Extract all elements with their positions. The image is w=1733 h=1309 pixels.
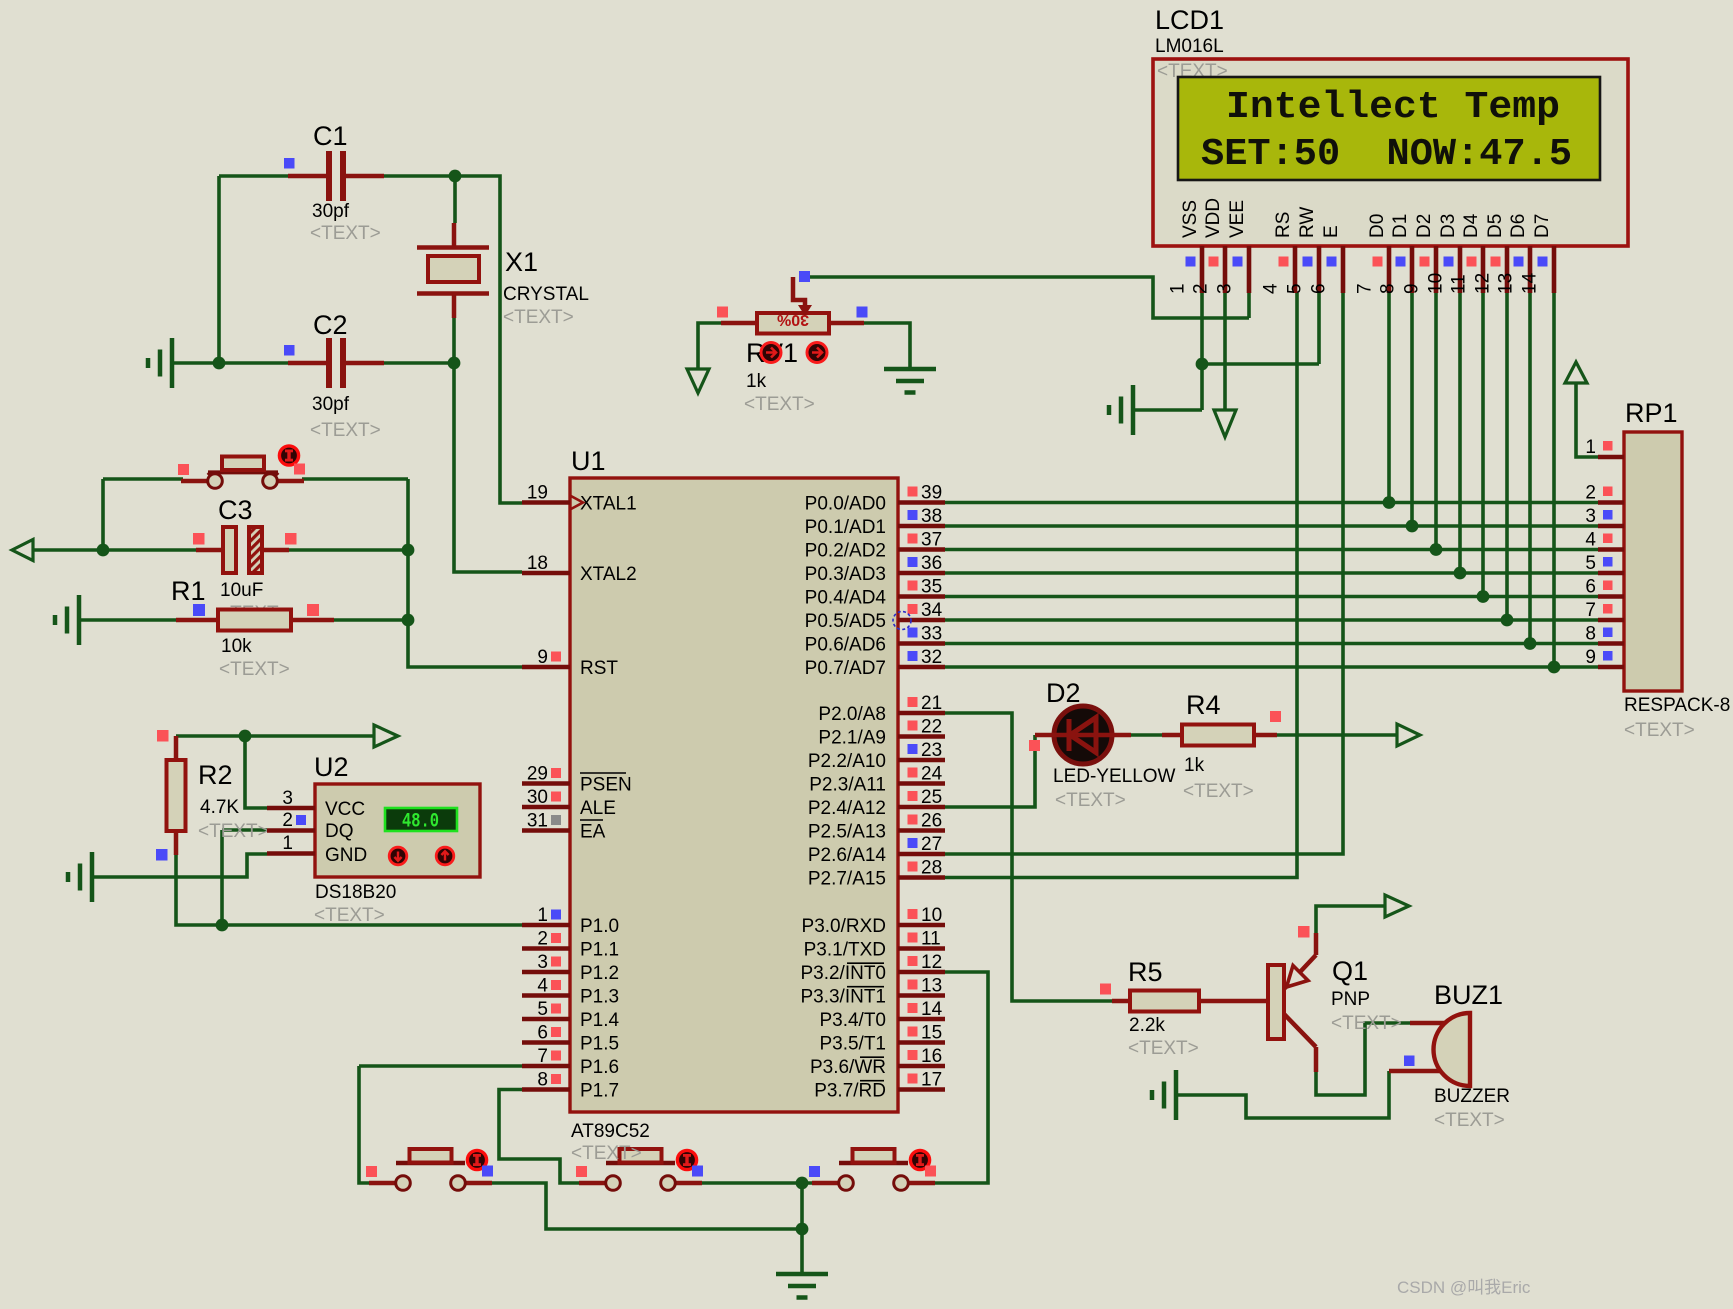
ground at buzzer [1152, 1070, 1176, 1120]
U1 pin 32 P0.7/AD7 [805, 647, 945, 679]
svg-text:3: 3 [282, 788, 293, 809]
svg-text:R5: R5 [1128, 957, 1163, 987]
svg-text:D1: D1 [1390, 214, 1411, 238]
wire reset button right to RST [302, 479, 522, 667]
svg-text:5: 5 [537, 999, 548, 1020]
U1 pin 21 P2.0/A8 [818, 693, 945, 725]
wire LCD D0 vertical [1387, 293, 1391, 503]
svg-text:D5: D5 [1485, 214, 1506, 238]
svg-text:BUZZER: BUZZER [1434, 1086, 1510, 1107]
svg-text:P1.3: P1.3 [580, 987, 619, 1008]
wire D2 cathode to R4 [1129, 733, 1162, 737]
U1 pin 1 P1.0 [522, 905, 619, 937]
svg-text:31: 31 [527, 811, 548, 832]
svg-text:P1.5: P1.5 [580, 1034, 619, 1055]
svg-text:P0.2/AD2: P0.2/AD2 [805, 541, 886, 562]
wire U1 P0.6 to RP1 pin8 [945, 642, 1598, 646]
LCD1 pin 4 RS [1261, 212, 1296, 294]
U1 pin 3 P1.2 [522, 952, 619, 984]
U1 pin 16 P3.6/WR [810, 1046, 945, 1078]
svg-text:14: 14 [1520, 272, 1541, 294]
svg-text:1: 1 [282, 833, 293, 854]
svg-text:8: 8 [1378, 283, 1399, 294]
svg-text:2: 2 [1191, 283, 1212, 294]
svg-text:P2.4/A12: P2.4/A12 [808, 798, 886, 819]
RP1 pin 8 [1585, 624, 1624, 645]
resistor R4 1k [1162, 690, 1281, 802]
wire U1 P2.6 to LCD E [945, 293, 1343, 854]
svg-text:4.7K: 4.7K [200, 797, 239, 818]
svg-text:P2.3/A11: P2.3/A11 [809, 775, 886, 796]
push button key3 [809, 1149, 936, 1190]
svg-text:C3: C3 [218, 495, 253, 525]
ground below keys [776, 1274, 828, 1298]
svg-text:3: 3 [1585, 506, 1596, 527]
svg-text:29: 29 [527, 764, 548, 785]
svg-text:P0.0/AD0: P0.0/AD0 [805, 494, 886, 515]
node junction 3 [448, 357, 461, 370]
svg-text:P3.3/INT1: P3.3/INT1 [800, 987, 886, 1008]
wire key2 right to key3 left [692, 1181, 822, 1185]
U2 temp up button [436, 847, 454, 865]
svg-text:Q1: Q1 [1332, 956, 1368, 986]
RP1 pin 1 [1585, 437, 1624, 458]
svg-text:VDD: VDD [1203, 198, 1224, 238]
LCD1 pin 5 RW [1285, 207, 1320, 294]
svg-text:P2.2/A10: P2.2/A10 [808, 751, 886, 772]
svg-text:DS18B20: DS18B20 [315, 882, 396, 903]
wire RV1 right to ground [864, 323, 910, 369]
svg-text:2: 2 [282, 810, 293, 831]
wire R1 right to node D [334, 618, 408, 622]
svg-text:D6: D6 [1508, 214, 1529, 238]
svg-text:1: 1 [537, 905, 548, 926]
terminal right arrow at Q1 emitter [1385, 895, 1409, 917]
svg-text:R1: R1 [171, 576, 206, 606]
svg-text:34: 34 [921, 600, 943, 621]
svg-text:D2: D2 [1046, 678, 1081, 708]
svg-text:PSEN: PSEN [580, 775, 632, 796]
LCD1 pin 7 D0 [1355, 214, 1390, 294]
wire U1 P0.0 to RP1 pin2 [945, 501, 1598, 505]
RP1 pin 9 [1585, 647, 1624, 668]
svg-text:6: 6 [1309, 283, 1330, 294]
svg-text:C1: C1 [313, 121, 348, 151]
node junction 4 [97, 544, 110, 557]
capacitor C3 10uF [193, 495, 297, 624]
svg-text:P2.1/A9: P2.1/A9 [818, 728, 886, 749]
svg-text:16: 16 [921, 1046, 942, 1067]
wire U2 DQ to P1.0 net [222, 830, 267, 925]
svg-text:1k: 1k [746, 371, 767, 392]
svg-text:2: 2 [537, 929, 548, 950]
LCD display LCD1 LM016L [1153, 5, 1628, 246]
svg-text:6: 6 [537, 1023, 548, 1044]
wire LCD pin3 stub drop [1247, 293, 1251, 318]
svg-text:XTAL1: XTAL1 [580, 494, 637, 515]
wire ground to C2 left [172, 361, 288, 365]
wire C1 right to XTAL1 [384, 176, 522, 503]
wire U1 P0.7 to RP1 pin9 [945, 665, 1598, 669]
LCD1 pin 8 D1 [1378, 214, 1413, 294]
svg-text:P2.0/A8: P2.0/A8 [818, 704, 886, 725]
wire U1 P0.1 to RP1 pin3 [945, 524, 1598, 528]
svg-text:1: 1 [1168, 283, 1189, 294]
wire C1 left to node A [219, 174, 288, 178]
svg-text:8: 8 [537, 1070, 548, 1091]
svg-text:E: E [1321, 225, 1342, 238]
svg-text:<TEXT>: <TEXT> [503, 307, 574, 328]
svg-text:2.2k: 2.2k [1129, 1015, 1165, 1036]
svg-text:23: 23 [921, 740, 942, 761]
wire C3 right to node C [289, 548, 408, 552]
svg-text:R4: R4 [1186, 690, 1221, 720]
svg-text:D4: D4 [1461, 213, 1482, 238]
U1 pin 28 P2.7/A15 [808, 858, 945, 890]
svg-text:GND: GND [325, 845, 367, 866]
wire LCD D7 vertical [1552, 293, 1556, 667]
svg-text:CSDN @叫我Eric: CSDN @叫我Eric [1397, 1278, 1531, 1297]
svg-text:P2.7/A15: P2.7/A15 [808, 869, 886, 890]
svg-text:13: 13 [921, 976, 942, 997]
svg-text:P1.1: P1.1 [580, 940, 619, 961]
wire U1 P0.5 to RP1 pin7 [945, 618, 1598, 622]
U2 temp down button [389, 847, 407, 865]
ground near R1 [55, 595, 79, 645]
wire ground to R1 left [79, 618, 176, 622]
RP1 pin 7 [1585, 600, 1624, 621]
wire R2 bottom to P1.0 net [176, 855, 222, 925]
capacitor C2 30pf [284, 310, 384, 441]
node junction 16 [1477, 590, 1490, 603]
U1 pin 22 P2.1/A9 [818, 717, 945, 749]
svg-text:9: 9 [537, 647, 548, 668]
resistor R2 4.7K [156, 730, 269, 861]
svg-text:14: 14 [921, 999, 943, 1020]
svg-text:32: 32 [921, 647, 942, 668]
wire ground stem bottom [800, 1183, 804, 1274]
wire LCD D5 vertical [1505, 293, 1509, 620]
svg-text:XTAL2: XTAL2 [580, 564, 637, 585]
svg-text:VCC: VCC [325, 799, 365, 820]
svg-text:<TEXT>: <TEXT> [219, 659, 290, 680]
svg-text:<TEXT>: <TEXT> [1055, 790, 1126, 811]
svg-text:17: 17 [921, 1070, 942, 1091]
svg-text:X1: X1 [505, 247, 538, 277]
svg-text:<TEXT>: <TEXT> [1331, 1013, 1402, 1034]
node junction 17 [1501, 614, 1514, 627]
U1 pin 25 P2.4/A12 [808, 787, 945, 819]
svg-text:RST: RST [580, 658, 618, 679]
node junction 1 [449, 170, 462, 183]
svg-text:<TEXT>: <TEXT> [1128, 1038, 1199, 1059]
resistor R5 2.2k [1100, 957, 1268, 1059]
RP1 pin 4 [1585, 530, 1624, 551]
U2 temperature display 48.0 [385, 808, 457, 834]
U2 pin 2 DQ [267, 810, 354, 842]
wire Q1 emitter to terminal [1316, 906, 1386, 933]
wire Q1 collector to buzzer top [1316, 1023, 1410, 1095]
svg-text:P0.1/AD1: P0.1/AD1 [805, 517, 886, 538]
terminal left arrow at C3 net [12, 540, 33, 561]
svg-text:BUZ1: BUZ1 [1434, 980, 1503, 1010]
svg-text:12: 12 [1473, 273, 1494, 294]
wire RV1 left to terminal [698, 323, 721, 370]
U1 pin 36 P0.3/AD3 [805, 553, 945, 585]
svg-text:P1.0: P1.0 [580, 916, 619, 937]
svg-text:<TEXT>: <TEXT> [310, 420, 381, 441]
push button key2 [576, 1149, 703, 1190]
wire LCD D3 vertical [1458, 293, 1462, 573]
U1 pin 13 P3.3/INT1 [800, 976, 945, 1008]
svg-text:P2.5/A13: P2.5/A13 [808, 822, 886, 843]
svg-text:Intellect Temp: Intellect Temp [1226, 86, 1560, 129]
wire ground to U2 GND [92, 854, 267, 877]
svg-text:P1.6: P1.6 [580, 1057, 619, 1078]
wire C2 right to node B [384, 361, 454, 365]
capacitor C1 30pf [284, 121, 384, 244]
U2 pin 1 GND [267, 833, 367, 866]
LCD1 pin 6 E [1309, 225, 1344, 294]
svg-text:6: 6 [1585, 577, 1596, 598]
svg-text:P3.2/INT0: P3.2/INT0 [800, 963, 886, 984]
LCD1 pin 2 VDD [1191, 198, 1226, 294]
svg-text:9: 9 [1585, 647, 1596, 668]
diode D2 LED-YELLOW [1029, 678, 1176, 811]
svg-text:5: 5 [1585, 553, 1596, 574]
ground at RV1 [884, 369, 936, 393]
U1 pin 26 P2.5/A13 [808, 811, 945, 843]
svg-text:ALE: ALE [580, 798, 616, 819]
U1 pin 37 P0.2/AD2 [805, 530, 945, 562]
transistor Q1 PNP [1268, 926, 1402, 1072]
svg-text:15: 15 [921, 1023, 942, 1044]
LCD1 pin 13 D6 [1496, 214, 1531, 294]
wire LCD D2 vertical [1434, 293, 1438, 550]
wire U1 P2.7 to LCD RS [945, 293, 1297, 878]
svg-text:AT89C52: AT89C52 [571, 1121, 650, 1142]
svg-text:<TEXT>: <TEXT> [744, 394, 815, 415]
svg-text:P0.7/AD7: P0.7/AD7 [805, 658, 886, 679]
svg-text:9: 9 [1402, 283, 1423, 294]
wire ground to buzzer bottom [1176, 1071, 1389, 1118]
svg-text:35: 35 [921, 577, 942, 598]
svg-text:3: 3 [537, 952, 548, 973]
svg-text:22: 22 [921, 717, 942, 738]
svg-text:28: 28 [921, 858, 942, 879]
svg-text:U2: U2 [314, 752, 349, 782]
U1 pin 2 P1.1 [522, 929, 619, 961]
wire LCD D1 vertical [1410, 293, 1414, 526]
node junction 9 [796, 1177, 809, 1190]
wire LCD D4 vertical [1481, 293, 1485, 597]
svg-text:<TEXT>: <TEXT> [1434, 1110, 1505, 1131]
wire LCD VSS to ground and RW [1135, 293, 1319, 410]
svg-text:38: 38 [921, 506, 942, 527]
LCD1 pin 3 VEE [1215, 200, 1250, 294]
terminal up arrow at RP1 [1565, 362, 1587, 383]
node junction 14 [1430, 543, 1443, 556]
wire terminal to C3 left [32, 548, 196, 552]
svg-text:<TEXT>: <TEXT> [1624, 720, 1695, 741]
svg-text:D2: D2 [1414, 214, 1435, 238]
U1 pin 24 P2.3/A11 [809, 764, 945, 796]
wire RP1 pin1 to power terminal [1576, 383, 1598, 457]
svg-text:<TEXT>: <TEXT> [1183, 781, 1254, 802]
U2 pin 3 VCC [267, 788, 365, 820]
svg-text:P0.4/AD4: P0.4/AD4 [805, 588, 887, 609]
node junction 10 [796, 1223, 809, 1236]
node junction 2 [213, 357, 226, 370]
svg-text:37: 37 [921, 530, 942, 551]
svg-text:P1.4: P1.4 [580, 1010, 620, 1031]
svg-text:8: 8 [1585, 624, 1596, 645]
wire R2 top to power terminal [176, 734, 374, 738]
RP1 pin 5 [1585, 553, 1624, 574]
RP1 pin 2 [1585, 483, 1624, 504]
svg-text:P1.7: P1.7 [580, 1081, 619, 1102]
svg-text:10k: 10k [221, 636, 252, 657]
svg-text:P3.5/T1: P3.5/T1 [819, 1034, 886, 1055]
svg-text:<TEXT>: <TEXT> [198, 821, 269, 842]
wire LCD VDD to terminal [1223, 293, 1227, 410]
svg-text:11: 11 [921, 929, 941, 950]
node junction 5 [402, 544, 415, 557]
svg-text:VSS: VSS [1180, 200, 1201, 238]
node junction 11 [1196, 358, 1209, 371]
op-amp U1 AT89C52 microcontroller [570, 446, 898, 1164]
svg-text:39: 39 [921, 483, 942, 504]
svg-text:C2: C2 [313, 310, 348, 340]
U1 pin 18 XTAL2 [522, 553, 637, 585]
node junction 19 [1548, 661, 1561, 674]
wire U1 P1.6 to key1 [359, 1066, 522, 1183]
svg-text:18: 18 [527, 553, 548, 574]
svg-text:4: 4 [1585, 530, 1596, 551]
node junction 13 [1406, 520, 1419, 533]
svg-text:25: 25 [921, 787, 942, 808]
node junction 18 [1524, 637, 1537, 650]
svg-text:RESPACK-8: RESPACK-8 [1624, 695, 1730, 716]
svg-text:D7: D7 [1532, 214, 1553, 238]
terminal down arrow at LCD VDD [1214, 410, 1236, 437]
push button reset [178, 446, 305, 488]
svg-text:PNP: PNP [1331, 989, 1370, 1010]
svg-text:4: 4 [537, 976, 548, 997]
ground at LCD VSS [1109, 385, 1133, 435]
wire key3 right to U1 P3.2 [926, 972, 988, 1183]
terminal right arrow at R2 power [374, 725, 398, 747]
U1 pin 33 P0.6/AD6 [805, 624, 945, 656]
watermark [1397, 1278, 1531, 1297]
svg-text:19: 19 [527, 483, 548, 504]
node junction 6 [402, 614, 415, 627]
U1 pin 11 P3.1/TXD [804, 929, 945, 961]
wire U1 P0.4 to RP1 pin6 [945, 595, 1598, 599]
svg-text:P1.2: P1.2 [580, 963, 619, 984]
svg-text:1: 1 [1585, 437, 1596, 458]
svg-text:13: 13 [1496, 273, 1517, 294]
svg-text:10: 10 [921, 905, 942, 926]
ground near C2 [148, 338, 172, 388]
svg-text:5: 5 [1285, 283, 1306, 294]
svg-text:7: 7 [1585, 600, 1596, 621]
LCD1 pin 9 D2 [1402, 214, 1437, 294]
svg-text:P0.5/AD5: P0.5/AD5 [805, 611, 886, 632]
LCD1 pin 12 D5 [1473, 214, 1508, 294]
U1 pin 4 P1.3 [522, 976, 619, 1008]
potentiometer RV1 1k [717, 271, 868, 415]
svg-text:SET:50 NOW:47.5: SET:50 NOW:47.5 [1201, 133, 1572, 176]
U1 pin 14 P3.4/T0 [819, 999, 945, 1031]
U1 pin 38 P0.1/AD1 [805, 506, 945, 538]
wire node A down to crystal top [453, 176, 457, 223]
wire VCC branch to U2 pin3 [245, 736, 267, 808]
svg-text:21: 21 [921, 693, 942, 714]
LCD1 pin 10 D3 [1426, 214, 1461, 294]
svg-text:33: 33 [921, 624, 942, 645]
U1 pin 23 P2.2/A10 [808, 740, 945, 772]
svg-text:P0.3/AD3: P0.3/AD3 [805, 564, 886, 585]
svg-text:R2: R2 [198, 760, 233, 790]
svg-text:LCD1: LCD1 [1155, 5, 1224, 35]
U1 pin 27 P2.6/A14 [808, 834, 945, 866]
U1 pin 8 P1.7 [522, 1070, 619, 1102]
wire RV1 wiper to LCD VEE [800, 277, 1249, 318]
svg-text:26: 26 [921, 811, 942, 832]
RP1 pin 6 [1585, 577, 1624, 598]
svg-text:7: 7 [1355, 283, 1376, 294]
LCD1 pin 11 D4 [1449, 213, 1484, 294]
svg-text:P0.6/AD6: P0.6/AD6 [805, 635, 886, 656]
temperature sensor U2 DS18B20 [314, 752, 480, 926]
wire reset button left [103, 479, 183, 550]
U1 pin 39 P0.0/AD0 [805, 483, 945, 515]
svg-text:30pf: 30pf [312, 394, 350, 415]
svg-text:2: 2 [1585, 483, 1596, 504]
svg-text:10: 10 [1426, 273, 1447, 294]
U1 pin 5 P1.4 [522, 999, 620, 1031]
node junction 15 [1454, 567, 1467, 580]
svg-text:RP1: RP1 [1625, 398, 1678, 428]
push button key1 [366, 1149, 493, 1190]
svg-text:RS: RS [1273, 212, 1294, 238]
U1 pin 34 P0.5/AD5 [805, 600, 945, 632]
U1 pin 19 XTAL1 [522, 483, 637, 515]
svg-text:1k: 1k [1184, 755, 1205, 776]
node junction 8 [216, 919, 229, 932]
svg-text:36: 36 [921, 553, 942, 574]
svg-text:4: 4 [1261, 283, 1282, 294]
svg-text:7: 7 [537, 1046, 548, 1067]
node probe marker at P0.5 [893, 612, 911, 630]
svg-text:D3: D3 [1438, 214, 1459, 238]
svg-text:<TEXT>: <TEXT> [310, 223, 381, 244]
svg-text:CRYSTAL: CRYSTAL [503, 284, 589, 305]
wire C1 left down to C2 left [217, 176, 221, 363]
svg-text:P3.4/T0: P3.4/T0 [819, 1010, 886, 1031]
svg-text:P3.6/WR: P3.6/WR [810, 1057, 886, 1078]
U1 pin 30 ALE [522, 787, 616, 819]
svg-text:30pf: 30pf [312, 201, 350, 222]
svg-text:P3.0/RXD: P3.0/RXD [802, 916, 886, 937]
svg-text:24: 24 [921, 764, 943, 785]
U1 pin 10 P3.0/RXD [802, 905, 945, 937]
svg-text:<TEXT>: <TEXT> [571, 1143, 642, 1164]
svg-text:RW: RW [1297, 207, 1318, 238]
resistor pack RP1 RESPACK-8 [1624, 398, 1730, 741]
svg-text:P3.1/TXD: P3.1/TXD [804, 940, 886, 961]
